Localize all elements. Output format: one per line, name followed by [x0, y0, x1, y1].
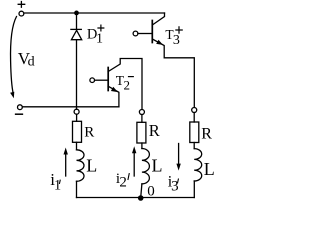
svg-text:d: d: [28, 54, 35, 69]
svg-text:L: L: [86, 155, 97, 175]
svg-text:2: 2: [124, 77, 131, 92]
svg-text:R: R: [149, 121, 160, 140]
svg-text:1: 1: [96, 31, 103, 46]
svg-text:R: R: [84, 125, 94, 141]
svg-text:3: 3: [171, 178, 179, 194]
svg-text:2: 2: [119, 175, 127, 191]
svg-text:L: L: [152, 155, 163, 175]
svg-text:3: 3: [173, 33, 180, 48]
svg-text:L: L: [204, 159, 215, 179]
svg-text:1: 1: [54, 178, 61, 194]
svg-text:R: R: [201, 125, 212, 142]
svg-text:0: 0: [147, 184, 155, 200]
